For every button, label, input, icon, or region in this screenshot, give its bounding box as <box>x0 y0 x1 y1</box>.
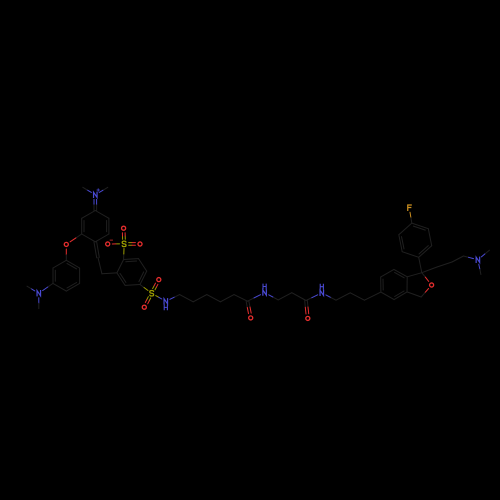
molecular skeleton bonds and heteroatom labels (rhodamine-type dye / sulfonamide / amide linker / fluoro-dihydroisobenzofuran amine) <box>93 199 95 205</box>
